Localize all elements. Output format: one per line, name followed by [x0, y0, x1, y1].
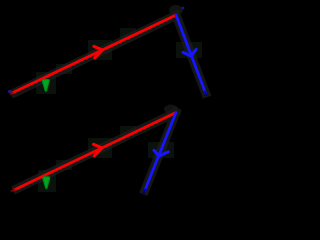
junction smudge top (decorative): [169, 5, 183, 15]
artifact halo (decorative): [15, 15, 206, 190]
vector b (blue) top: [176, 15, 206, 93]
junction smudge bottom (decorative): [164, 105, 178, 114]
start dot top (dim blue): [8, 90, 11, 93]
arrowhead of vector b bottom: [154, 150, 168, 156]
faded tail of red vector bottom: [12, 190, 15, 191]
faded tail of blue vector top: [205, 92, 206, 95]
vector a (red) top: [12, 15, 176, 93]
faded tail of red vector top: [10, 93, 12, 94]
arrowhead of vector a top: [94, 46, 103, 58]
artifact blocks (decorative): [36, 28, 202, 192]
green marker arrow bottom: [43, 177, 50, 189]
arrowhead of vector a bottom: [94, 144, 103, 156]
green marker arrow top: [42, 79, 49, 91]
vector a (red) bottom: [14, 113, 175, 190]
arrowhead of vector b top: [183, 49, 196, 56]
endpoint dot top-right (dim blue): [182, 7, 185, 10]
faded tail of blue vector bottom: [143, 190, 145, 194]
vector b (blue) bottom: [145, 113, 176, 191]
